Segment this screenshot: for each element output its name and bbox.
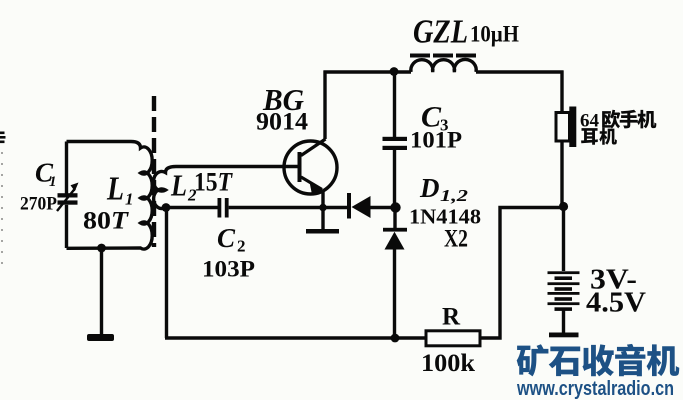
capacitor C2 bbox=[218, 198, 222, 218]
svg-text:80T: 80T bbox=[83, 208, 130, 235]
svg-text:D: D bbox=[419, 173, 440, 203]
wire bbox=[229, 206, 347, 209]
wire bbox=[165, 336, 426, 339]
svg-text:10µH: 10µH bbox=[470, 22, 519, 47]
ferrite core (dashed) bbox=[152, 96, 156, 247]
svg-text:1,2: 1,2 bbox=[440, 186, 469, 205]
svg-text:9014: 9014 bbox=[256, 109, 309, 136]
svg-text:1: 1 bbox=[49, 174, 57, 190]
svg-text:C: C bbox=[217, 223, 236, 253]
wire bbox=[65, 205, 68, 248]
earphone 64 ohm bbox=[556, 113, 570, 142]
svg-text:101P: 101P bbox=[410, 128, 462, 153]
svg-text:2: 2 bbox=[237, 237, 246, 256]
svg-text:GZL: GZL bbox=[413, 14, 468, 51]
svg-text:L: L bbox=[170, 168, 187, 203]
inductor L2 bbox=[154, 167, 176, 209]
node: D1/D2/C3 junction bbox=[390, 202, 400, 212]
inductor GZL 10uH bbox=[411, 59, 476, 72]
node: L1/C1 bottom tap bbox=[97, 244, 106, 253]
wire bbox=[560, 71, 563, 114]
svg-text:15T: 15T bbox=[194, 168, 233, 197]
inductor L1 bbox=[67, 142, 153, 250]
node: L2 bottom bbox=[162, 203, 171, 212]
svg-text:R: R bbox=[442, 304, 461, 331]
svg-text:L: L bbox=[106, 171, 124, 208]
ground bbox=[87, 334, 114, 341]
wire bbox=[476, 70, 564, 73]
svg-text:100k: 100k bbox=[421, 350, 475, 377]
wire bbox=[560, 141, 563, 207]
node: earphone/battery junction bbox=[559, 202, 568, 211]
wire bbox=[100, 248, 103, 334]
node: D2 bottom bbox=[391, 334, 400, 343]
wire bbox=[65, 142, 68, 194]
battery 3V-4.5V bbox=[548, 271, 580, 274]
wire bbox=[165, 208, 168, 339]
node: C3 top bbox=[390, 67, 399, 76]
svg-text:270P: 270P bbox=[20, 194, 57, 215]
capacitor C3 bbox=[393, 72, 396, 137]
wire: emitter down bbox=[321, 190, 324, 230]
ground: emitter bar bbox=[306, 229, 339, 234]
diode D1 1N4148 bbox=[347, 193, 351, 219]
diode D2 1N4148 bbox=[393, 208, 396, 230]
svg-text:103P: 103P bbox=[202, 257, 255, 282]
capacitor C1 bbox=[58, 193, 78, 197]
svg-text:www.crystalradio.cn: www.crystalradio.cn bbox=[516, 378, 674, 400]
svg-text:4.5V: 4.5V bbox=[586, 287, 646, 319]
watermark logo 矿石收音机 bbox=[517, 344, 549, 376]
wire bbox=[176, 165, 298, 168]
wire bbox=[562, 207, 565, 272]
wire: top rail bbox=[324, 70, 412, 73]
svg-text:X2: X2 bbox=[444, 226, 468, 253]
wire bbox=[166, 206, 218, 209]
wire: collector up bbox=[323, 71, 326, 140]
scan-edge artifact bbox=[0, 132, 5, 135]
node: emitter junction bbox=[319, 204, 327, 212]
resistor R 100k bbox=[426, 331, 480, 346]
wire: feedback to battery node bbox=[480, 208, 564, 339]
transistor Q1 BG 9014 bbox=[284, 141, 337, 194]
svg-text:1: 1 bbox=[125, 190, 134, 209]
